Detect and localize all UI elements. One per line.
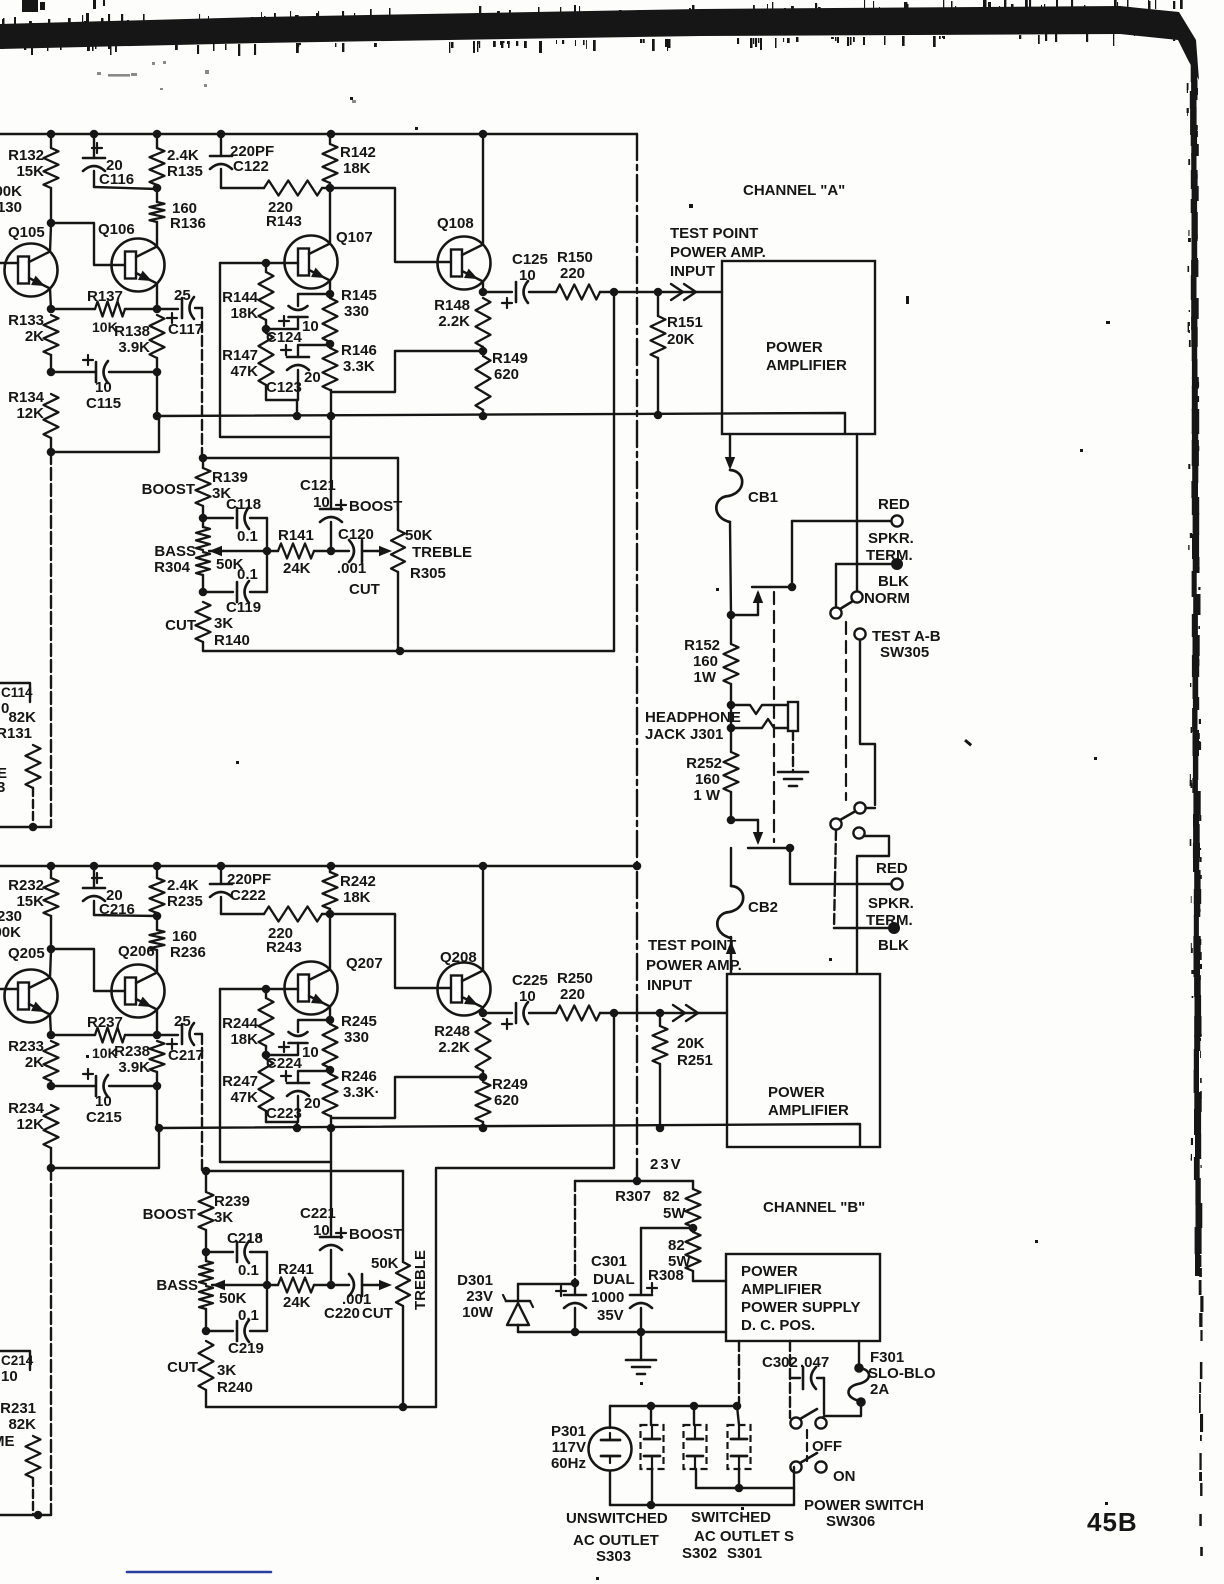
junction rail2 B x159 — [155, 1124, 164, 1133]
wire input node B — [614, 1012, 660, 1014]
resistor R247 — [222, 1059, 297, 1122]
svg-text:45B: 45B — [1087, 1507, 1138, 1537]
svg-text:S303: S303 — [596, 1548, 631, 1565]
label BLK A — [878, 573, 909, 590]
test point arrow B — [673, 1005, 698, 1021]
svg-text:R145: R145 — [341, 287, 377, 304]
outlet S302 — [684, 1406, 707, 1488]
svg-text:CUT: CUT — [167, 1359, 198, 1376]
resistor R251 — [653, 1013, 713, 1128]
svg-text:Q108: Q108 — [437, 215, 474, 232]
pencil smudge — [97, 61, 356, 103]
svg-text:R304: R304 — [154, 559, 191, 576]
resistor R307 — [615, 1188, 700, 1227]
wire outlet bus top — [610, 1405, 739, 1407]
svg-text:117V: 117V — [552, 1439, 586, 1456]
wire Q207 base — [220, 988, 298, 990]
capacitor C117 — [157, 287, 203, 338]
svg-text:R246: R246 — [341, 1068, 377, 1085]
svg-text:CUT: CUT — [165, 617, 196, 634]
wire Q206 emitter — [156, 1010, 158, 1036]
scan noise bar top — [0, 0, 1199, 80]
junction R235/R236/C216 — [153, 912, 162, 921]
svg-text:AMPLIFIER: AMPLIFIER — [741, 1281, 822, 1298]
arrowhead jack upper — [753, 590, 763, 603]
arrowhead into CB1 — [725, 457, 735, 470]
resistor R134 — [8, 389, 58, 452]
capacitor C223 — [266, 1071, 331, 1128]
circuit breaker CB1 — [716, 470, 778, 522]
resistor R248 — [434, 1019, 490, 1077]
box C214 (cut) — [0, 1351, 34, 1370]
junction bass wiper / C118 C119 — [263, 547, 272, 556]
junction bottom-left A — [29, 823, 38, 832]
svg-text:POWER: POWER — [741, 1263, 798, 1280]
resistor R250 — [556, 970, 614, 1021]
switch SW305 TEST contact — [854, 628, 865, 639]
pot wiper arrow TREBLE — [377, 546, 392, 556]
label BASS B — [156, 1277, 246, 1307]
svg-text:R230: R230 — [0, 908, 22, 925]
svg-text:R234: R234 — [8, 1100, 45, 1117]
svg-text:R250: R250 — [557, 970, 593, 987]
junction R239/C218/bass — [202, 1248, 211, 1257]
capacitor C221 — [300, 1205, 402, 1285]
svg-text:23V: 23V — [466, 1288, 493, 1305]
svg-text:TERM.: TERM. — [866, 547, 913, 564]
terminal RED speaker B — [891, 878, 902, 889]
junction R148/R149/bootstrap — [479, 347, 488, 356]
junction Q207 emitter / C224 / R245 — [326, 1016, 335, 1025]
circuit breaker CB2 — [717, 886, 778, 938]
svg-text:R251: R251 — [677, 1052, 713, 1069]
junction R307/R308 — [689, 1224, 698, 1233]
junction Q105 collector — [47, 219, 56, 228]
wire Q208 emitter — [482, 1008, 484, 1014]
junction rail A — [153, 130, 162, 139]
svg-text:130: 130 — [0, 199, 22, 216]
svg-text:C302: C302 — [762, 1354, 798, 1371]
wire rail2 channel B — [159, 1124, 860, 1146]
svg-text:POWER AMP.: POWER AMP. — [646, 957, 742, 974]
wire PS box to switch — [789, 1341, 791, 1418]
wire Q206 collector — [156, 966, 158, 973]
junction minus bus / C301b / ground — [637, 1328, 646, 1337]
svg-text:10W: 10W — [462, 1304, 494, 1321]
svg-text:3K: 3K — [214, 615, 233, 632]
label SWITCHED AC OUTLETS — [682, 1509, 794, 1562]
svg-text:0.1: 0.1 — [237, 566, 258, 583]
wire R246 to rail2 and C221 — [330, 1116, 332, 1235]
svg-text:TEST A-B: TEST A-B — [872, 628, 941, 645]
svg-text:D. C. POS.: D. C. POS. — [741, 1317, 815, 1334]
resistor R136 — [150, 188, 206, 240]
headphone jack tip contact — [731, 705, 788, 714]
svg-text:2.2K: 2.2K — [438, 313, 470, 330]
svg-text:C119: C119 — [226, 599, 261, 616]
svg-text:3.9K: 3.9K — [118, 339, 150, 356]
junction rail A — [479, 130, 488, 139]
svg-text:Q208: Q208 — [440, 949, 477, 966]
svg-text:Q107: Q107 — [336, 229, 373, 246]
svg-text:R235: R235 — [167, 893, 203, 910]
junction tone top B / R239 — [202, 1167, 211, 1176]
label NORM — [864, 590, 910, 607]
svg-text:.047: .047 — [800, 1354, 829, 1371]
svg-text:2.4K: 2.4K — [167, 147, 199, 164]
svg-text:C122: C122 — [233, 158, 269, 175]
svg-text:10: 10 — [95, 1093, 112, 1110]
terminal BLK speaker A — [891, 558, 903, 570]
label cut E — [0, 765, 7, 796]
wire TEST contact link — [860, 640, 875, 808]
junction Q206e/R237/R238/C217 — [153, 1031, 162, 1040]
svg-text:20K: 20K — [667, 331, 695, 348]
power amplifier box B — [727, 974, 880, 1147]
capacitor C225 — [483, 972, 556, 1029]
transistor Q107 — [285, 229, 373, 289]
label ON — [833, 1468, 856, 1485]
stray specks — [86, 97, 1110, 1580]
wire 23V to C301a — [575, 1181, 637, 1283]
resistor R152 — [684, 615, 738, 705]
svg-text:3K: 3K — [214, 1209, 233, 1226]
junction R244/R247/C224 — [262, 1051, 271, 1060]
resistor R246 — [323, 1068, 380, 1116]
wire R142 node to Q108 base — [330, 188, 452, 262]
junction bass wiper B — [263, 1281, 272, 1290]
wire 23V to R307 — [637, 1181, 693, 1189]
svg-text:R131: R131 — [0, 725, 32, 742]
wire Q207 collector — [329, 916, 331, 970]
capacitor C125 — [483, 251, 556, 308]
junction C221/C220/R241 — [327, 1281, 336, 1290]
junction Q207 base / R244 — [262, 985, 271, 994]
junction rail B — [153, 862, 162, 871]
mechanical link jack — [773, 592, 775, 842]
svg-text:R132: R132 — [8, 147, 44, 164]
junction R144/R147/C124 — [262, 325, 271, 334]
junction R150 / feedback — [610, 288, 619, 297]
svg-text:S302: S302 — [682, 1545, 717, 1562]
wire BLK A to switch — [836, 564, 891, 607]
svg-text:POWER: POWER — [768, 1084, 825, 1101]
capacitor C115 — [51, 355, 157, 412]
resistor R130 cut label — [0, 183, 22, 216]
capacitor C118 — [203, 496, 267, 551]
svg-text:50K: 50K — [371, 1255, 399, 1272]
svg-text:60Hz: 60Hz — [551, 1455, 586, 1472]
wire Q205 collector to Q206 base — [51, 949, 125, 991]
resistor R233 — [8, 1038, 58, 1086]
wire supply minus bus — [518, 1331, 726, 1333]
wire to power amp input A — [658, 291, 722, 293]
svg-text:R308: R308 — [648, 1267, 684, 1284]
capacitor C222 — [210, 866, 271, 914]
junction rail B — [217, 862, 226, 871]
wire to power amp input B — [660, 1012, 727, 1014]
terminal BLK speaker B — [888, 922, 900, 934]
svg-text:3.3K: 3.3K — [343, 358, 375, 375]
terminal RED speaker A — [891, 515, 902, 526]
svg-text:F301: F301 — [870, 1349, 904, 1366]
capacitor C121 — [300, 477, 402, 551]
resistor R142 — [323, 134, 376, 188]
resistor R143 — [221, 181, 330, 231]
junction Q107 emitter / C124 / R145 — [326, 290, 335, 299]
resistor R230 cut label — [0, 908, 22, 941]
svg-text:R138: R138 — [114, 323, 150, 340]
resistor R249 — [476, 1076, 528, 1128]
svg-text:2.2K: 2.2K — [438, 1039, 470, 1056]
pot wiper arrow BASS — [209, 546, 267, 556]
svg-text:C223: C223 — [266, 1105, 302, 1122]
transistor Q106 — [98, 221, 165, 292]
switch SW306 contact lower-left — [790, 1461, 801, 1472]
wire Q207 base corner to C221 node — [220, 989, 331, 1162]
svg-text:TEST POINT: TEST POINT — [648, 937, 736, 954]
junction Q108 emitter — [479, 288, 488, 297]
wire Q205 base — [0, 988, 18, 990]
capacitor C119 — [203, 551, 267, 616]
svg-text:10: 10 — [519, 267, 536, 284]
label BASS R304 — [154, 543, 244, 576]
resistor R132 — [8, 134, 58, 223]
svg-text:10: 10 — [313, 494, 330, 511]
junction R248/R249/bootstrap — [479, 1073, 488, 1082]
transistor Q208 — [438, 949, 491, 1016]
svg-text:330: 330 — [344, 1029, 369, 1046]
potentiometer BASS B upper — [199, 1252, 213, 1284]
switch SW306 blade upper — [800, 1409, 817, 1419]
svg-text:12K: 12K — [16, 1116, 44, 1133]
svg-text:POWER: POWER — [766, 339, 823, 356]
svg-text:C115: C115 — [86, 395, 121, 412]
junction treble bottom — [396, 647, 405, 656]
capacitor C216 — [83, 866, 157, 918]
pot wiper arrow TREBLE B — [377, 1280, 392, 1290]
svg-text:BOOST: BOOST — [349, 1226, 402, 1243]
svg-text:BOOST: BOOST — [349, 498, 402, 515]
svg-text:R231: R231 — [0, 1400, 36, 1417]
svg-text:C222: C222 — [230, 887, 266, 904]
power amplifier box A — [722, 261, 875, 434]
label SPKR TERM B — [866, 895, 914, 929]
svg-text:82: 82 — [663, 1188, 680, 1205]
junction fuse top — [854, 1363, 864, 1373]
resistor R133 — [8, 312, 58, 372]
switch SW305 blade A — [840, 601, 853, 609]
potentiometer R304 BASS upper — [196, 518, 210, 550]
junction rail A — [90, 130, 99, 139]
junction C301a top — [571, 1279, 580, 1288]
svg-text:R238: R238 — [114, 1043, 150, 1060]
svg-text:160: 160 — [693, 653, 718, 670]
svg-text:R240: R240 — [217, 1379, 253, 1396]
junction speaker line B — [786, 844, 795, 853]
svg-text:R305: R305 — [410, 565, 446, 582]
wire PS box to fuse — [858, 1341, 860, 1366]
svg-text:R137: R137 — [87, 288, 123, 305]
svg-text:TEST POINT: TEST POINT — [670, 225, 758, 242]
junction R245/R246/C223 — [326, 1066, 335, 1075]
switch SW305 contact B lower — [853, 827, 864, 838]
svg-text:AC OUTLET S: AC OUTLET S — [694, 1528, 794, 1545]
junction C215/R238 — [153, 1082, 162, 1091]
svg-text:220: 220 — [560, 986, 585, 1003]
switch SW305 pole B upper — [854, 802, 865, 813]
svg-text:OFF: OFF — [812, 1438, 842, 1455]
potentiometer TREBLE B — [371, 1171, 429, 1407]
junction C121/C120/R141 — [327, 547, 336, 556]
wire SW305 B to amp B — [857, 836, 889, 974]
junction R151 rail2 — [654, 411, 663, 420]
svg-text:TREBLE: TREBLE — [412, 544, 472, 561]
wire Q107 emitter — [329, 281, 331, 295]
svg-text:0.1: 0.1 — [238, 1262, 259, 1279]
svg-text:35V: 35V — [597, 1307, 624, 1324]
junction rail2 x157 — [153, 412, 162, 421]
svg-text:POWER AMP.: POWER AMP. — [670, 244, 766, 261]
resistor R237 — [51, 1014, 157, 1061]
wire feedback channel A — [613, 292, 615, 651]
resistor R238 — [114, 1041, 164, 1128]
outlet S303 — [641, 1406, 664, 1505]
junction jack tip — [727, 701, 736, 710]
svg-text:R147: R147 — [222, 347, 258, 364]
junction Q205e/R237/R233 — [47, 1031, 56, 1040]
svg-text:AMPLIFIER: AMPLIFIER — [766, 357, 847, 374]
svg-text:.001: .001 — [337, 560, 366, 577]
svg-text:BASS: BASS — [156, 1277, 198, 1294]
svg-text:00K: 00K — [0, 924, 21, 941]
svg-text:2.4K: 2.4K — [167, 877, 199, 894]
svg-text:Q205: Q205 — [8, 945, 45, 962]
junction rail B — [633, 862, 642, 871]
headphone jack sleeve — [788, 702, 798, 731]
resistor R140 — [165, 602, 250, 651]
ground jack — [778, 772, 808, 786]
svg-text:24K: 24K — [283, 1294, 311, 1311]
junction R242/R243/Q207 collector — [326, 910, 335, 919]
svg-text:S301: S301 — [727, 1545, 762, 1562]
svg-text:C117: C117 — [168, 321, 203, 338]
wire feedback channel B — [436, 1013, 614, 1407]
svg-text:R142: R142 — [340, 144, 376, 161]
svg-text:Q106: Q106 — [98, 221, 135, 238]
label OFF — [812, 1438, 842, 1455]
svg-text:INPUT: INPUT — [647, 977, 692, 994]
capacitor C219 — [206, 1285, 267, 1357]
wire R242 node to Q208 base — [330, 914, 452, 988]
junction jack top — [727, 611, 736, 620]
junction switched return — [735, 1484, 744, 1493]
wire Q107 base corner to C121 node — [220, 263, 331, 437]
svg-text:R149: R149 — [492, 350, 528, 367]
switch SW306 contact lower-right — [815, 1461, 826, 1472]
junction Q106e/R137/R138/C117 — [153, 305, 162, 314]
wire R134 bottom return — [51, 416, 159, 452]
wire Q105 base — [0, 262, 18, 264]
svg-text:R140: R140 — [214, 632, 250, 649]
junction R151 top — [654, 288, 663, 297]
label channel B — [763, 1199, 865, 1216]
svg-text:R150: R150 — [557, 249, 593, 266]
svg-text:RED: RED — [878, 496, 910, 513]
svg-text:BLK: BLK — [878, 573, 909, 590]
wire jack switch stub upper — [731, 593, 758, 615]
resistor R231 (cut) — [0, 1400, 40, 1515]
svg-text:R141: R141 — [278, 527, 314, 544]
wire bottom-left return A — [0, 826, 51, 828]
svg-text:R242: R242 — [340, 873, 376, 890]
wire Q107 collector — [329, 190, 331, 244]
label test point A — [670, 225, 766, 280]
svg-text:R139: R139 — [212, 469, 248, 486]
capacitor C220 — [324, 1274, 393, 1322]
wire tone top line B — [206, 1170, 403, 1172]
ground power supply — [626, 1332, 656, 1385]
label 23V — [650, 1156, 683, 1173]
junction Q208 emitter — [479, 1009, 488, 1018]
svg-text:2K: 2K — [25, 1054, 44, 1071]
box C114 (cut) — [0, 683, 33, 702]
junction C223 rail2 — [293, 1124, 302, 1133]
junction fuse bottom — [856, 1397, 866, 1407]
resistor R241 — [267, 1261, 331, 1311]
resistor R308 — [648, 1232, 726, 1284]
svg-text:47K: 47K — [230, 363, 258, 380]
svg-text:82K: 82K — [8, 709, 36, 726]
svg-text:HEADPHONE: HEADPHONE — [645, 709, 741, 726]
resistor R240 — [167, 1341, 253, 1407]
junction rail B — [90, 862, 99, 871]
resistor R150 — [556, 249, 614, 300]
svg-text:C125: C125 — [512, 251, 548, 268]
wire R146 to rail2 and C121 — [330, 390, 332, 509]
wire bootstrap R146-R149 — [331, 351, 483, 392]
capacitor C124 — [266, 294, 330, 346]
svg-text:18K: 18K — [230, 305, 258, 322]
svg-text:CHANNEL "A": CHANNEL "A" — [743, 182, 845, 199]
label TEST A-B SW305 — [872, 628, 941, 661]
junction outlet bus — [647, 1402, 656, 1411]
svg-text:C123: C123 — [266, 379, 302, 396]
mechanical link SW305 — [845, 622, 847, 800]
svg-text:R236: R236 — [170, 944, 206, 961]
resistor R149 — [476, 350, 528, 416]
label F301 — [868, 1349, 936, 1398]
svg-text:DUAL: DUAL — [593, 1271, 635, 1288]
junction R145/R146/C123 — [326, 340, 335, 349]
junction rail B — [479, 862, 488, 871]
svg-text:10: 10 — [313, 1222, 330, 1239]
wire bootstrap R246-R249 — [331, 1077, 483, 1118]
svg-text:Q207: Q207 — [346, 955, 383, 972]
fuse F301 — [848, 1368, 869, 1401]
junction C123 rail2 — [293, 412, 302, 421]
label C214 value — [1, 1368, 18, 1385]
wire speaker line B — [748, 847, 790, 849]
svg-text:R249: R249 — [492, 1076, 528, 1093]
svg-text:620: 620 — [494, 1092, 519, 1109]
svg-text:10: 10 — [302, 318, 319, 335]
svg-text:R237: R237 — [87, 1014, 123, 1031]
svg-text:R232: R232 — [8, 877, 44, 894]
svg-text:C116: C116 — [99, 171, 134, 188]
wire Q108 emitter — [482, 282, 484, 293]
wire bottom-left return B — [0, 1514, 51, 1516]
